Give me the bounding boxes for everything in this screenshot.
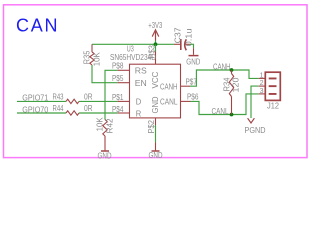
resistor R44 0R [53,104,93,115]
svg-text:0.1u: 0.1u [185,28,194,46]
pin P$6 CANL [181,93,199,102]
svg-text:P$5: P$5 [112,74,124,83]
resistor R35 10K [82,44,101,66]
svg-text:D: D [136,98,142,107]
net GPIO71 wire [17,100,118,102]
svg-text:P$6: P$6 [187,93,199,102]
ground GND (C37) [186,48,200,66]
resistor R43 0R [53,93,93,104]
pin 2 J12 [259,80,277,87]
wire CANH net [190,70,259,86]
svg-text:1: 1 [260,72,264,79]
svg-text:EN: EN [135,79,147,88]
pin P$8 RS [112,61,147,75]
pin P$7 CANH [181,77,198,86]
svg-text:R43: R43 [53,93,64,102]
svg-text:VCC: VCC [151,71,160,88]
svg-text:0R: 0R [84,93,93,102]
svg-text:PGND: PGND [245,126,266,135]
svg-text:RS: RS [135,67,147,76]
svg-text:CANL: CANL [212,107,230,116]
svg-text:GPIO71: GPIO71 [22,94,48,103]
net GPIO70 wire [17,112,118,114]
svg-text:CAN: CAN [16,15,58,35]
svg-text:+3V3: +3V3 [148,21,162,30]
svg-text:GND: GND [149,151,163,160]
svg-text:P$8: P$8 [112,61,124,70]
svg-text:R42: R42 [106,118,115,133]
pin P$3 riser to VCC [148,44,157,64]
pin P$5 EN [112,74,147,88]
wire P$2 to GND [155,125,157,142]
svg-text:120: 120 [232,77,241,93]
svg-text:3: 3 [260,88,264,95]
svg-text:R34: R34 [222,77,231,92]
svg-text:R35: R35 [82,50,91,64]
svg-text:P$2: P$2 [147,120,156,134]
wire PGND net [251,86,259,118]
pin P$1 D [112,93,142,107]
svg-text:CANH: CANH [160,82,178,91]
sheet frame [4,5,308,158]
svg-text:10K: 10K [93,51,102,66]
capacitor C37 0.1u [173,27,193,50]
svg-text:2: 2 [260,80,264,87]
svg-text:GND: GND [98,151,112,160]
wire +3V3 rail [92,43,174,45]
junction dot CANH/R34 [230,68,234,72]
connector J12 body [265,72,280,100]
junction dot rail/VCC [154,42,158,46]
wire RS net [105,70,118,119]
resistor R42 10K [96,117,115,151]
ground GND (U3) [149,142,163,160]
pin 3 J12 [259,88,277,95]
wire R35 to EN pin [92,65,118,83]
pin P$2 GND bottom [147,118,156,134]
svg-text:GND: GND [151,96,160,113]
svg-text:R: R [136,109,142,118]
svg-text:J12: J12 [267,102,279,111]
wire C37 to GND [190,44,194,48]
svg-text:P$1: P$1 [112,93,124,102]
pin 1 J12 [259,72,277,79]
power +3V3 [148,21,162,44]
pin P$4 R [112,105,142,118]
ground PGND [245,118,266,135]
svg-text:R44: R44 [53,104,65,113]
resistor R34 120 [222,70,240,115]
svg-text:10K: 10K [96,117,105,132]
svg-text:0R: 0R [84,104,93,113]
svg-text:C37: C37 [173,27,182,43]
svg-text:GPIO70: GPIO70 [22,105,49,114]
svg-text:P$4: P$4 [112,105,124,114]
junction dot CANL/R34 [230,113,234,117]
wire CANL net [191,94,259,115]
ground GND (R42) [98,151,112,160]
svg-text:CANH: CANH [213,63,231,72]
svg-text:GND: GND [186,58,200,67]
svg-text:CANL: CANL [160,98,178,107]
svg-text:P$7: P$7 [186,77,198,86]
op IC U3 SN65HVD234D body [130,64,181,118]
